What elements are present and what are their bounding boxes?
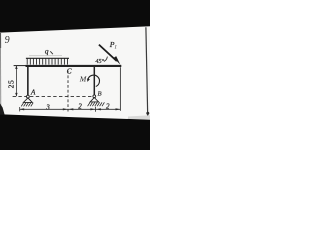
left end tick bbox=[19, 107, 21, 111]
arrow pair at C extension bbox=[63, 108, 68, 110]
moment arc M bbox=[88, 75, 100, 86]
distributed load faint upper smear bbox=[29, 55, 62, 57]
svg-text:9: 9 bbox=[5, 35, 10, 46]
moment arc arrowhead bbox=[87, 79, 90, 82]
bottom black scan bar bbox=[0, 114, 150, 150]
svg-text:B: B bbox=[98, 90, 102, 97]
beam (horizontal member A-corner to right end) bbox=[26, 65, 122, 67]
svg-text:3: 3 bbox=[45, 103, 50, 111]
vertical dimension 25: line bbox=[15, 66, 17, 97]
svg-text:1: 1 bbox=[114, 45, 117, 51]
q pointer tick bbox=[50, 51, 53, 54]
dim 25 top arrowhead bbox=[15, 65, 17, 69]
support B triangle bbox=[90, 98, 99, 102]
dashed baseline through supports bbox=[13, 96, 93, 98]
svg-text:M: M bbox=[79, 75, 87, 84]
column A (left vertical member) bbox=[27, 65, 29, 95]
svg-text:C: C bbox=[67, 66, 72, 75]
left end arrowhead bbox=[19, 108, 24, 110]
support A hatching bbox=[21, 103, 33, 107]
arrow pair at B tick bbox=[90, 108, 95, 110]
paper background bbox=[0, 0, 150, 150]
svg-text:2: 2 bbox=[78, 102, 82, 110]
left page-edge mark top bbox=[0, 33, 2, 48]
right end arrowhead bbox=[116, 108, 121, 110]
svg-text:45°: 45° bbox=[95, 58, 104, 65]
support B pin circle bbox=[93, 95, 96, 98]
distributed load arrows bbox=[27, 59, 67, 65]
support A pin circle bbox=[27, 95, 30, 98]
svg-text:2: 2 bbox=[106, 102, 110, 110]
left page-edge faint line bbox=[0, 48, 2, 112]
force P1 arrow bbox=[99, 45, 117, 62]
column B (short vertical member) bbox=[93, 66, 95, 95]
top black scan bar bbox=[0, 0, 150, 33]
tick below B bbox=[95, 107, 97, 112]
right extension line bbox=[119, 67, 121, 111]
right border bottom blob bbox=[146, 112, 149, 115]
dashed extension below C bbox=[67, 71, 69, 112]
svg-text:A: A bbox=[30, 88, 36, 97]
distributed load line bbox=[26, 57, 69, 59]
dim 25 bottom arrowhead bbox=[15, 93, 17, 97]
svg-text:q: q bbox=[45, 47, 49, 56]
svg-text:25: 25 bbox=[6, 80, 15, 89]
right border line bbox=[146, 27, 148, 115]
bottom dimension line bbox=[19, 108, 120, 110]
support A triangle bbox=[23, 98, 32, 103]
left page-edge wedge bottom bbox=[0, 104, 5, 115]
angle arc tick bbox=[104, 57, 108, 62]
support B hatching bbox=[88, 102, 105, 106]
beam left extension line bbox=[14, 65, 26, 67]
bottom gray notch bbox=[128, 115, 150, 120]
